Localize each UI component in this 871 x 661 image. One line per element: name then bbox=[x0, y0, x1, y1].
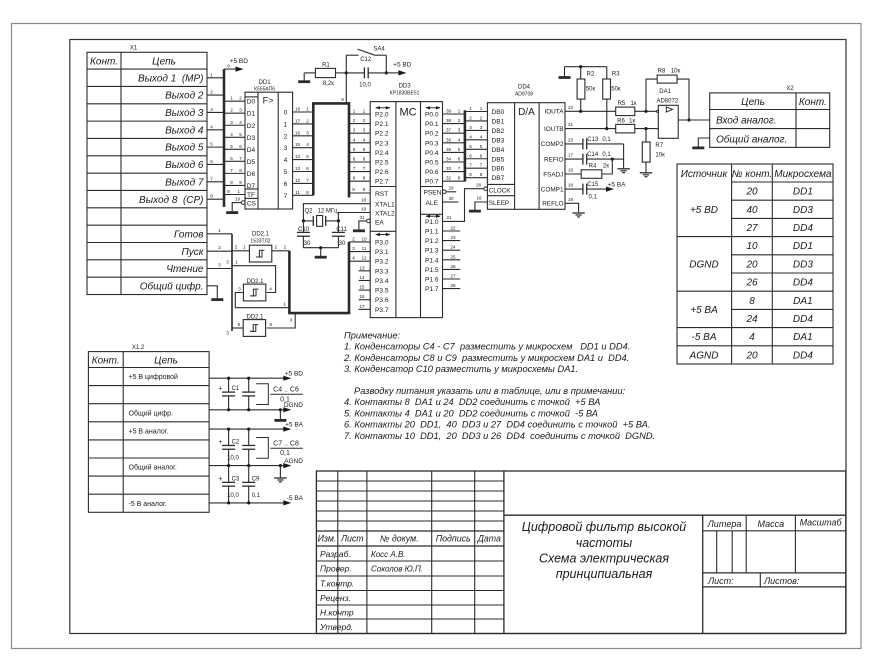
svg-text:38: 38 bbox=[446, 118, 452, 123]
svg-text:5: 5 bbox=[480, 144, 483, 149]
svg-text:D0: D0 bbox=[247, 99, 256, 106]
svg-text:R4: R4 bbox=[589, 164, 597, 170]
svg-text:DB6: DB6 bbox=[492, 166, 505, 173]
svg-text:F>: F> bbox=[263, 96, 274, 106]
svg-text:20: 20 bbox=[745, 350, 758, 361]
DD3 XTAL2 pin 19 wire bbox=[338, 213, 370, 221]
ground at R1 left bbox=[303, 73, 305, 81]
svg-text:5. Контакты 4 DA1 и 20 DD2 с: 5. Контакты 4 DA1 и 20 DD2 соединить с т… bbox=[344, 408, 598, 418]
svg-text:3: 3 bbox=[210, 107, 213, 112]
svg-text:P2.0: P2.0 bbox=[375, 112, 389, 119]
svg-text:3: 3 bbox=[238, 286, 241, 291]
svg-text:6: 6 bbox=[306, 166, 309, 171]
svg-text:2к: 2к bbox=[603, 164, 609, 170]
svg-text:22: 22 bbox=[450, 226, 456, 231]
svg-text:2: 2 bbox=[469, 115, 472, 120]
svg-text:1: 1 bbox=[283, 302, 286, 307]
svg-text:D1: D1 bbox=[247, 111, 256, 118]
wire bus to DD4 DB2 bbox=[465, 129, 488, 131]
svg-text:1: 1 bbox=[480, 106, 483, 111]
svg-text:4: 4 bbox=[230, 132, 233, 137]
svg-text:2: 2 bbox=[239, 96, 242, 101]
svg-text:7: 7 bbox=[306, 178, 309, 183]
svg-text:DA1: DA1 bbox=[659, 89, 671, 95]
wire bus to DD3 P2.2 bbox=[349, 132, 370, 134]
connector X1 table bbox=[87, 52, 207, 294]
svg-text:2: 2 bbox=[458, 118, 461, 123]
svg-text:9: 9 bbox=[341, 97, 344, 102]
svg-text:P3.0: P3.0 bbox=[375, 239, 389, 246]
svg-text:1: 1 bbox=[238, 189, 241, 194]
svg-text:11: 11 bbox=[362, 246, 367, 251]
svg-text:+5 BD: +5 BD bbox=[230, 58, 249, 65]
svg-text:0,1: 0,1 bbox=[589, 194, 598, 200]
earth ground at R7 bbox=[645, 162, 647, 173]
ground at crystal bbox=[320, 248, 322, 258]
junction R2 bottom IOUTA bbox=[579, 110, 582, 113]
svg-text:X2: X2 bbox=[786, 86, 794, 92]
svg-text:R2: R2 bbox=[587, 72, 595, 78]
capacitor C11 30 bbox=[337, 221, 339, 233]
svg-text:6: 6 bbox=[458, 157, 461, 162]
svg-text:PSEN: PSEN bbox=[424, 189, 442, 196]
wire R6 to opamp noninverting input bbox=[635, 128, 659, 130]
wire DD1 output 1 pin 17 to bus bbox=[293, 123, 314, 125]
svg-text:P3.1: P3.1 bbox=[375, 249, 389, 256]
svg-text:5: 5 bbox=[469, 144, 472, 149]
svg-text:Изм.: Изм. bbox=[318, 534, 337, 544]
svg-text:Лист: Лист bbox=[340, 534, 364, 544]
wire bus to DD1 D6 pin 8 bbox=[224, 172, 245, 174]
svg-text:0: 0 bbox=[284, 110, 288, 117]
wire bus to DD3 P2.3 bbox=[349, 142, 370, 144]
wire Чтение from X1 bbox=[207, 268, 232, 270]
svg-text:Вход аналог.: Вход аналог. bbox=[716, 116, 777, 127]
document title bbox=[522, 520, 687, 581]
svg-text:EA: EA bbox=[375, 219, 384, 226]
svg-text:24: 24 bbox=[450, 245, 456, 250]
svg-text:Конт.: Конт. bbox=[799, 97, 827, 108]
svg-text:5: 5 bbox=[458, 147, 461, 152]
svg-text:1. Конденсаторы С4 - С7 разме: 1. Конденсаторы С4 - С7 разместить у мик… bbox=[344, 342, 630, 352]
svg-text:DB1: DB1 bbox=[492, 118, 505, 125]
svg-text:DD2.1: DD2.1 bbox=[246, 279, 264, 285]
svg-text:0,1: 0,1 bbox=[602, 137, 611, 143]
svg-text:Выход 7: Выход 7 bbox=[165, 177, 204, 188]
wire X1 Выход 5 to bus bbox=[207, 146, 224, 148]
svg-text:3: 3 bbox=[352, 246, 355, 251]
svg-text:Т.контр.: Т.контр. bbox=[320, 579, 354, 589]
capacitor C3 polarized 10.0 bbox=[228, 466, 230, 483]
wire DD2.1-2 output pin 4 loop to bus A bbox=[232, 266, 276, 293]
svg-text:5: 5 bbox=[238, 322, 241, 327]
svg-text:REFIO: REFIO bbox=[544, 156, 564, 163]
svg-text:P1.2: P1.2 bbox=[425, 238, 439, 245]
title block header labels bbox=[318, 534, 501, 544]
svg-text:P2.3: P2.3 bbox=[375, 140, 389, 147]
svg-text:8: 8 bbox=[230, 180, 233, 185]
svg-text:4: 4 bbox=[306, 142, 309, 147]
svg-text:P1.3: P1.3 bbox=[425, 248, 439, 255]
resistor R8 10k feedback bbox=[646, 79, 657, 111]
svg-text:1к: 1к bbox=[631, 101, 637, 107]
svg-text:6. Контакты 20 DD1, 40 DD3: 6. Контакты 20 DD1, 40 DD3 и 27 DD4 соед… bbox=[344, 420, 650, 430]
svg-text:10: 10 bbox=[361, 236, 367, 241]
bus line Готов/Пуск/Чтение bbox=[231, 234, 233, 331]
svg-text:Общий аналог.: Общий аналог. bbox=[716, 134, 787, 146]
svg-text:+5 В цифровой: +5 В цифровой bbox=[129, 373, 179, 381]
wire bus to DD1 D0 pin 2 bbox=[224, 100, 245, 102]
svg-text:1: 1 bbox=[235, 260, 238, 265]
svg-text:2. Конденсаторы С8 и С9 разме: 2. Конденсаторы С8 и С9 разместить у мик… bbox=[343, 353, 629, 363]
svg-text:TF: TF bbox=[247, 192, 255, 199]
svg-text:КР1830ВЕ51: КР1830ВЕ51 bbox=[390, 91, 420, 97]
svg-text:Утверд.: Утверд. bbox=[319, 622, 353, 632]
wire DD2.1-3 input pin 5 from bus bbox=[232, 327, 243, 329]
svg-text:8: 8 bbox=[363, 176, 366, 181]
svg-text:Выход 1 (МР): Выход 1 (МР) bbox=[138, 73, 204, 84]
svg-text:33: 33 bbox=[446, 166, 452, 171]
svg-text:P0.1: P0.1 bbox=[425, 121, 439, 128]
earth ground at AGND bbox=[279, 464, 282, 467]
svg-text:8: 8 bbox=[469, 172, 472, 177]
DD3 P3.4 stub pin 14 bbox=[359, 279, 371, 281]
resistor R6 1k bbox=[616, 124, 635, 132]
DD3 PSEN pin 29 stub with bubble bbox=[443, 190, 447, 194]
wire X1 Выход 2 to bus bbox=[207, 94, 224, 96]
DD4 CLOCK input bubble bbox=[484, 187, 488, 191]
svg-text:10: 10 bbox=[746, 241, 758, 252]
svg-text:1: 1 bbox=[230, 96, 233, 101]
svg-text:17: 17 bbox=[295, 118, 301, 123]
svg-text:Выход 3: Выход 3 bbox=[165, 108, 204, 119]
net +5 BA arrow at COMP1 bbox=[604, 188, 607, 190]
junction R8 output bbox=[687, 118, 690, 121]
capacitor C9 0.1 bbox=[248, 466, 250, 483]
DD3 XTAL1 pin 18 wire bbox=[303, 204, 370, 221]
wire DD1 output 0 pin 18 to bus bbox=[293, 111, 314, 113]
svg-text:3: 3 bbox=[239, 108, 242, 113]
svg-text:+5 BA: +5 BA bbox=[690, 305, 718, 316]
svg-text:DA1: DA1 bbox=[793, 332, 812, 343]
svg-text:DD4: DD4 bbox=[793, 314, 813, 325]
svg-text:P0.0: P0.0 bbox=[425, 112, 439, 119]
wire DD1 output 5 pin 13 to bus bbox=[293, 171, 314, 173]
svg-text:+: + bbox=[218, 476, 222, 483]
wire bus to DD4 DB5 bbox=[465, 158, 488, 160]
svg-text:P0.4: P0.4 bbox=[425, 150, 439, 157]
DD3 P3.3 stub pin 13 bbox=[359, 270, 371, 272]
svg-text:9: 9 bbox=[227, 189, 230, 194]
svg-text:C3: C3 bbox=[232, 476, 240, 482]
svg-text:2: 2 bbox=[284, 133, 288, 140]
wire DD1 output 6 pin 12 to bus bbox=[293, 182, 314, 184]
svg-text:18: 18 bbox=[361, 198, 367, 203]
wire DD2.1-2 input pin 3 from bus bbox=[235, 293, 289, 308]
svg-text:DD4: DD4 bbox=[793, 278, 813, 289]
junction R1/C12/RST bbox=[345, 71, 348, 74]
earth ground at REFLO bbox=[572, 212, 584, 214]
svg-text:36: 36 bbox=[446, 137, 452, 142]
resistor R2 50k bbox=[577, 79, 585, 99]
svg-text:Масса: Масса bbox=[757, 519, 784, 529]
svg-text:4: 4 bbox=[239, 120, 242, 125]
svg-text:DB2: DB2 bbox=[492, 128, 505, 135]
svg-text:19: 19 bbox=[235, 197, 241, 202]
svg-text:P3.6: P3.6 bbox=[375, 297, 389, 304]
resistor R4 2k at FSADJ pin 16 bbox=[565, 173, 581, 175]
wire DD1 output 2 pin 16 to bus bbox=[293, 135, 314, 137]
svg-text:Провер.: Провер. bbox=[320, 564, 352, 574]
svg-text:7: 7 bbox=[230, 168, 233, 173]
svg-text:16: 16 bbox=[568, 168, 574, 173]
svg-text:Выход 2: Выход 2 bbox=[165, 91, 204, 102]
wire bus to DD4 DB6 bbox=[465, 167, 488, 169]
DD3 P1.3 stub pin 24 bbox=[443, 249, 461, 251]
wire DD1 output 4 pin 14 to bus bbox=[293, 159, 314, 161]
svg-text:Конт.: Конт. bbox=[90, 56, 118, 67]
svg-text:R5: R5 bbox=[618, 101, 626, 107]
svg-text:C1: C1 bbox=[232, 386, 240, 392]
svg-text:P3.5: P3.5 bbox=[375, 288, 389, 295]
svg-text:DD1: DD1 bbox=[793, 241, 813, 252]
svg-text:частоты: частоты bbox=[576, 536, 633, 550]
capacitor C7..C8 group bbox=[248, 429, 250, 445]
DD3 P1.6 stub pin 27 bbox=[443, 278, 461, 280]
wire bus to DD1 D5 pin 7 bbox=[224, 160, 245, 162]
svg-text:0,1: 0,1 bbox=[280, 450, 290, 457]
svg-text:5: 5 bbox=[230, 144, 233, 149]
svg-text:1: 1 bbox=[284, 121, 288, 128]
svg-text:23: 23 bbox=[450, 235, 456, 240]
svg-text:6: 6 bbox=[270, 322, 273, 327]
wire bus to DD1 D4 pin 6 bbox=[224, 148, 245, 150]
svg-text:27: 27 bbox=[745, 223, 758, 234]
svg-text:5: 5 bbox=[239, 132, 242, 137]
svg-text:28: 28 bbox=[450, 283, 456, 288]
capacitor C13 0.1 at COMP2 pin 23 bbox=[565, 143, 583, 145]
svg-text:14: 14 bbox=[295, 154, 301, 159]
svg-text:16: 16 bbox=[568, 197, 574, 202]
group bus to DD3 P2/RST vertical bbox=[348, 102, 351, 197]
svg-text:1: 1 bbox=[243, 245, 246, 250]
svg-text:Цепь: Цепь bbox=[152, 56, 176, 67]
svg-text:8: 8 bbox=[749, 296, 755, 307]
wire bus to DD3 P2.5 bbox=[349, 161, 370, 163]
svg-text:3: 3 bbox=[230, 120, 233, 125]
svg-text:Лист:: Лист: bbox=[707, 576, 734, 586]
svg-text:3: 3 bbox=[353, 128, 356, 133]
wire CS to ground bbox=[232, 203, 241, 212]
svg-text:P3.7: P3.7 bbox=[375, 307, 389, 314]
svg-text:3. Конденсатор С10 разместить: 3. Конденсатор С10 разместить у микросхе… bbox=[344, 364, 578, 374]
wire DD2.1-3 output pin 6 to bus bbox=[267, 313, 295, 328]
svg-text:Выход 8 (СР): Выход 8 (СР) bbox=[139, 195, 203, 206]
svg-text:10к: 10к bbox=[671, 68, 681, 74]
svg-text:7. Контакты 10 DD1, 20 DD3: 7. Контакты 10 DD1, 20 DD3 и 26 DD4 соед… bbox=[344, 431, 655, 441]
svg-text:20: 20 bbox=[745, 259, 758, 270]
svg-text:37: 37 bbox=[446, 128, 452, 133]
junction C14 R4 bbox=[611, 158, 614, 161]
DD3 P2 port arrow bbox=[376, 107, 390, 109]
svg-text:Схема электрическая: Схема электрическая bbox=[539, 552, 669, 566]
wire DD3 P0.5 pin 34 to bus bbox=[443, 161, 465, 163]
wire bus to DD3 RST pin 9 bbox=[349, 192, 370, 194]
wire Пуск from X1 bbox=[207, 250, 232, 252]
wire X1 Выход 7 to bus bbox=[207, 181, 224, 183]
svg-text:50к: 50к bbox=[611, 87, 621, 93]
svg-text:R7: R7 bbox=[655, 143, 663, 149]
svg-text:C4 .. C6: C4 .. C6 bbox=[273, 387, 299, 394]
svg-text:IOUTA: IOUTA bbox=[544, 109, 564, 116]
junction crystal right bbox=[337, 219, 340, 222]
wire DD3 P0.6 pin 33 to bus bbox=[443, 171, 465, 173]
svg-text:AD8072: AD8072 bbox=[656, 99, 678, 105]
svg-text:11: 11 bbox=[295, 190, 300, 195]
svg-text:30: 30 bbox=[339, 241, 346, 247]
svg-text:3: 3 bbox=[363, 128, 366, 133]
wire DD3 P0.7 pin 32 to bus bbox=[443, 180, 465, 182]
svg-text:C2: C2 bbox=[232, 440, 240, 446]
svg-text:30: 30 bbox=[448, 196, 454, 201]
svg-text:R6: R6 bbox=[617, 118, 625, 124]
svg-text:2: 2 bbox=[284, 245, 287, 250]
wire opamp output to X2 bbox=[678, 119, 710, 121]
svg-text:COMP2: COMP2 bbox=[541, 141, 564, 148]
svg-text:4. Контакты 8 DA1 и 24 DD2 с: 4. Контакты 8 DA1 и 24 DD2 соединить с т… bbox=[344, 397, 600, 407]
svg-text:DD3: DD3 bbox=[399, 84, 412, 90]
wire Готов from X1 bbox=[207, 233, 232, 235]
svg-text:R8: R8 bbox=[658, 68, 666, 74]
svg-text:5: 5 bbox=[363, 147, 366, 152]
svg-text:Разраб.: Разраб. bbox=[320, 549, 351, 559]
svg-text:AGND: AGND bbox=[689, 350, 719, 361]
svg-text:D5: D5 bbox=[247, 159, 256, 166]
capacitor C14 0.1 at REFIO pin 17 bbox=[565, 158, 583, 160]
svg-text:+5 BD: +5 BD bbox=[690, 205, 718, 216]
svg-text:7: 7 bbox=[469, 163, 472, 168]
svg-text:10к: 10к bbox=[655, 152, 665, 158]
wire X1 Выход 8 to bus bbox=[207, 198, 224, 200]
svg-text:0,1: 0,1 bbox=[602, 152, 611, 158]
wire bus to DD3 P2.1 bbox=[349, 123, 370, 125]
schmitt trigger DD2.1 third bbox=[243, 320, 265, 337]
wire C10 C11 common bbox=[303, 247, 338, 249]
svg-text:4: 4 bbox=[749, 332, 755, 343]
capacitor C2 polarized 10.0 bbox=[228, 429, 230, 445]
wire REFLO pin 16 to ground bbox=[565, 203, 579, 212]
switch SA4 bbox=[345, 55, 347, 73]
svg-text:4: 4 bbox=[353, 137, 356, 142]
svg-text:14: 14 bbox=[359, 275, 365, 280]
svg-text:P2.1: P2.1 bbox=[375, 121, 389, 128]
svg-text:15: 15 bbox=[295, 142, 301, 147]
svg-text:40: 40 bbox=[746, 205, 758, 216]
svg-text:34: 34 bbox=[446, 157, 452, 162]
svg-text:2: 2 bbox=[352, 236, 355, 241]
wire X1 Выход 3 to bus bbox=[207, 111, 224, 113]
junction crystal left bbox=[302, 219, 305, 222]
svg-text:39: 39 bbox=[446, 109, 452, 114]
svg-text:5: 5 bbox=[353, 147, 356, 152]
svg-text:8: 8 bbox=[210, 194, 213, 199]
crystal Q2 12MHz bbox=[303, 216, 338, 227]
wire bus to DD3 P2.4 bbox=[349, 151, 370, 153]
svg-text:19: 19 bbox=[361, 207, 367, 212]
svg-text:2: 2 bbox=[480, 115, 483, 120]
svg-text:0,1: 0,1 bbox=[252, 493, 261, 499]
wire IOUTB pin 21 bbox=[565, 128, 616, 130]
wire DD1 output 3 pin 15 to bus bbox=[293, 147, 314, 149]
svg-text:10,0: 10,0 bbox=[227, 456, 239, 462]
svg-text:-5 BA: -5 BA bbox=[287, 495, 304, 502]
svg-text:Общий цифр.: Общий цифр. bbox=[140, 280, 204, 292]
svg-text:XTAL2: XTAL2 bbox=[375, 211, 395, 218]
svg-text:Общий цифр.: Общий цифр. bbox=[129, 409, 174, 417]
svg-text:C14: C14 bbox=[587, 152, 599, 158]
svg-text:CS: CS bbox=[247, 200, 257, 207]
svg-text:2: 2 bbox=[210, 90, 213, 95]
svg-text:AD9708: AD9708 bbox=[515, 92, 533, 98]
schmitt trigger DD2.1 second bbox=[243, 284, 265, 301]
wire DD3 P0.1 pin 38 to bus bbox=[443, 123, 465, 125]
svg-text:P0.2: P0.2 bbox=[425, 131, 439, 138]
svg-text:1: 1 bbox=[363, 109, 366, 114]
capacitor C10 30 bbox=[302, 221, 304, 233]
svg-text:15: 15 bbox=[359, 285, 365, 290]
svg-text:5: 5 bbox=[284, 169, 288, 176]
svg-text:30: 30 bbox=[304, 241, 311, 247]
svg-text:P3.3: P3.3 bbox=[375, 268, 389, 275]
svg-text:P2.5: P2.5 bbox=[375, 160, 389, 167]
svg-text:18: 18 bbox=[295, 107, 301, 112]
svg-text:DD3: DD3 bbox=[793, 205, 813, 216]
wire DD1 output 7 pin 11 to bus bbox=[293, 194, 314, 196]
wire bus to DD4 DB7 bbox=[465, 177, 488, 179]
svg-text:Подпись: Подпись bbox=[436, 534, 471, 544]
wire bus to DD1 D2 pin 4 bbox=[224, 124, 245, 126]
svg-text:P1.6: P1.6 bbox=[425, 277, 439, 284]
ground at DD3 EA bbox=[353, 229, 365, 232]
svg-text:C11: C11 bbox=[336, 227, 347, 233]
svg-text:3: 3 bbox=[290, 318, 293, 323]
svg-text:C13: C13 bbox=[587, 137, 599, 143]
title block bbox=[316, 471, 845, 634]
svg-text:+: + bbox=[218, 439, 222, 446]
svg-text:+5 BA: +5 BA bbox=[285, 421, 304, 428]
DD3 P0 port arrow bbox=[426, 107, 440, 109]
svg-text:Выход 5: Выход 5 bbox=[165, 143, 204, 154]
DD3 P3.7 stub pin 17 bbox=[359, 308, 371, 310]
svg-text:XTAL1: XTAL1 bbox=[375, 202, 395, 209]
svg-text:6: 6 bbox=[210, 159, 213, 164]
svg-text:Источник: Источник bbox=[681, 169, 729, 180]
svg-text:REFLO: REFLO bbox=[542, 201, 563, 208]
connector X2 table bbox=[710, 93, 830, 147]
svg-text:1533ТЛ2: 1533ТЛ2 bbox=[250, 238, 270, 244]
svg-text:8: 8 bbox=[480, 172, 483, 177]
svg-text:12: 12 bbox=[295, 178, 301, 183]
wire DD3 P0.3 pin 36 to bus bbox=[443, 142, 465, 144]
ground at X2 bbox=[692, 146, 704, 149]
svg-text:17: 17 bbox=[359, 304, 365, 309]
junction R5 R8 node bbox=[644, 110, 647, 113]
wire DD2.1 output pin 2 to bus bbox=[272, 250, 290, 252]
wire COMP2/REFIO to ground bbox=[623, 144, 625, 168]
DD4 SLEEP pin 16 wire to ground bbox=[475, 202, 488, 211]
wire Общий цифр. to DGND arrow bbox=[209, 409, 284, 411]
svg-text:3: 3 bbox=[226, 260, 229, 265]
